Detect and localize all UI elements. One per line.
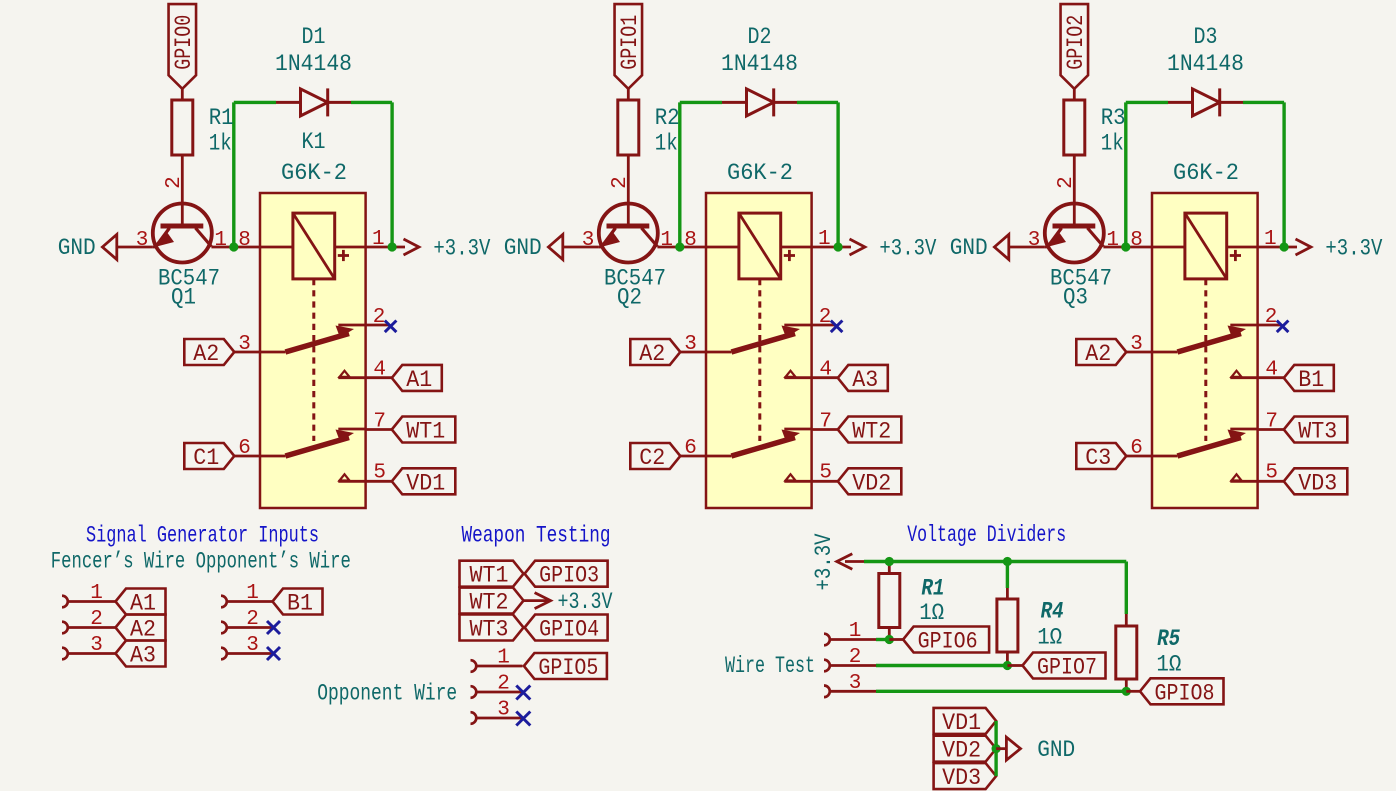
svg-text:3: 3 — [1130, 333, 1143, 356]
svg-text:GPIO0: GPIO0 — [171, 15, 197, 70]
svg-text:6: 6 — [684, 437, 697, 460]
svg-text:WT2: WT2 — [470, 590, 509, 616]
svg-text:Voltage Dividers: Voltage Dividers — [907, 522, 1066, 548]
svg-text:2: 2 — [246, 608, 259, 631]
svg-text:WT3: WT3 — [1298, 419, 1337, 445]
svg-text:Opponent Wire: Opponent Wire — [317, 680, 457, 706]
svg-text:K1: K1 — [302, 129, 326, 155]
svg-text:R2: R2 — [655, 105, 680, 131]
svg-text:GND: GND — [1037, 737, 1075, 763]
svg-text:GPIO5: GPIO5 — [538, 655, 598, 681]
svg-text:1Ω: 1Ω — [1037, 624, 1062, 650]
svg-text:2: 2 — [163, 176, 186, 189]
svg-text:G6K-2: G6K-2 — [727, 160, 793, 186]
svg-text:GPIO6: GPIO6 — [918, 629, 978, 655]
svg-text:1: 1 — [90, 582, 103, 605]
svg-text:6: 6 — [238, 437, 251, 460]
svg-text:A3: A3 — [852, 367, 878, 393]
svg-text:R1: R1 — [921, 575, 944, 601]
svg-text:2: 2 — [609, 176, 632, 189]
svg-text:2: 2 — [90, 608, 103, 631]
svg-text:1Ω: 1Ω — [1156, 652, 1181, 678]
svg-text:3: 3 — [684, 333, 697, 356]
svg-text:8: 8 — [1130, 229, 1143, 252]
svg-text:1N4148: 1N4148 — [721, 51, 798, 77]
svg-text:C1: C1 — [193, 445, 219, 471]
svg-text:1k: 1k — [1101, 131, 1124, 157]
svg-text:A2: A2 — [130, 617, 156, 643]
svg-text:6: 6 — [1130, 437, 1143, 460]
svg-text:B1: B1 — [1298, 367, 1324, 393]
svg-text:8: 8 — [238, 229, 251, 252]
svg-text:+3.3V: +3.3V — [558, 589, 613, 615]
svg-text:D3: D3 — [1194, 24, 1218, 50]
svg-text:1: 1 — [1106, 229, 1119, 252]
svg-text:1: 1 — [372, 228, 385, 251]
svg-text:R1: R1 — [209, 105, 234, 131]
svg-text:D1: D1 — [302, 24, 326, 50]
svg-text:R3: R3 — [1101, 105, 1126, 131]
svg-text:Weapon Testing: Weapon Testing — [462, 522, 611, 548]
svg-text:2: 2 — [1265, 306, 1278, 329]
svg-text:D2: D2 — [748, 24, 772, 50]
svg-text:1: 1 — [246, 582, 259, 605]
svg-text:A3: A3 — [130, 643, 156, 669]
svg-text:1N4148: 1N4148 — [1167, 51, 1244, 77]
svg-text:G6K-2: G6K-2 — [1173, 160, 1239, 186]
svg-text:3: 3 — [238, 333, 251, 356]
svg-text:Q1: Q1 — [171, 285, 196, 311]
svg-text:8: 8 — [684, 229, 697, 252]
svg-text:GND: GND — [58, 235, 96, 261]
svg-text:+3.3V: +3.3V — [879, 236, 936, 262]
svg-text:1: 1 — [818, 228, 831, 251]
svg-text:A2: A2 — [639, 341, 665, 367]
svg-text:3: 3 — [497, 699, 510, 722]
svg-text:3: 3 — [90, 634, 103, 657]
svg-text:2: 2 — [849, 646, 862, 669]
svg-text:WT3: WT3 — [470, 617, 509, 643]
svg-text:B1: B1 — [287, 591, 313, 617]
svg-text:2: 2 — [819, 306, 832, 329]
svg-text:Q2: Q2 — [617, 285, 642, 311]
svg-text:C3: C3 — [1085, 445, 1111, 471]
svg-text:3: 3 — [246, 634, 259, 657]
svg-text:3: 3 — [1028, 229, 1041, 252]
svg-text:VD1: VD1 — [942, 710, 981, 736]
svg-text:1: 1 — [1264, 228, 1277, 251]
svg-text:VD1: VD1 — [406, 470, 445, 496]
svg-text:Q3: Q3 — [1063, 285, 1088, 311]
svg-text:2: 2 — [1055, 176, 1078, 189]
svg-text:VD2: VD2 — [852, 470, 891, 496]
svg-text:WT1: WT1 — [406, 419, 445, 445]
svg-text:1N4148: 1N4148 — [275, 51, 352, 77]
svg-text:GND: GND — [504, 235, 542, 261]
svg-text:1k: 1k — [209, 131, 232, 157]
svg-text:GND: GND — [950, 235, 988, 261]
svg-text:GPIO8: GPIO8 — [1155, 680, 1215, 706]
svg-text:A1: A1 — [406, 367, 432, 393]
svg-text:1: 1 — [849, 620, 862, 643]
svg-text:+3.3V: +3.3V — [433, 236, 490, 262]
svg-text:GPIO4: GPIO4 — [539, 617, 599, 643]
svg-text:Signal Generator Inputs: Signal Generator Inputs — [86, 523, 319, 549]
svg-text:Fencer’s Wire Opponent’s Wire: Fencer’s Wire Opponent’s Wire — [51, 549, 351, 575]
svg-text:1: 1 — [497, 647, 510, 670]
svg-text:VD3: VD3 — [942, 765, 981, 791]
svg-text:1: 1 — [214, 229, 227, 252]
svg-text:R5: R5 — [1157, 626, 1180, 652]
svg-text:C2: C2 — [639, 445, 665, 471]
svg-text:WT1: WT1 — [470, 563, 509, 589]
svg-text:GPIO2: GPIO2 — [1063, 15, 1089, 70]
svg-text:GPIO1: GPIO1 — [617, 15, 643, 70]
svg-text:3: 3 — [136, 229, 149, 252]
svg-text:1Ω: 1Ω — [919, 600, 944, 626]
svg-text:+3.3V: +3.3V — [811, 533, 837, 590]
svg-text:A1: A1 — [130, 591, 156, 617]
svg-text:3: 3 — [849, 672, 862, 695]
svg-text:VD3: VD3 — [1298, 470, 1337, 496]
svg-text:3: 3 — [582, 229, 595, 252]
svg-text:VD2: VD2 — [942, 738, 981, 764]
svg-text:A2: A2 — [193, 341, 219, 367]
svg-text:2: 2 — [497, 673, 510, 696]
svg-text:2: 2 — [373, 306, 386, 329]
svg-text:+3.3V: +3.3V — [1325, 236, 1382, 262]
svg-text:WT2: WT2 — [852, 419, 891, 445]
svg-text:GPIO7: GPIO7 — [1037, 655, 1097, 681]
svg-text:R4: R4 — [1041, 599, 1064, 625]
svg-text:1: 1 — [660, 229, 673, 252]
svg-text:A2: A2 — [1085, 341, 1111, 367]
svg-text:GPIO3: GPIO3 — [539, 563, 599, 589]
svg-text:G6K-2: G6K-2 — [281, 160, 347, 186]
svg-text:Wire Test: Wire Test — [725, 653, 815, 679]
svg-text:1k: 1k — [655, 131, 678, 157]
